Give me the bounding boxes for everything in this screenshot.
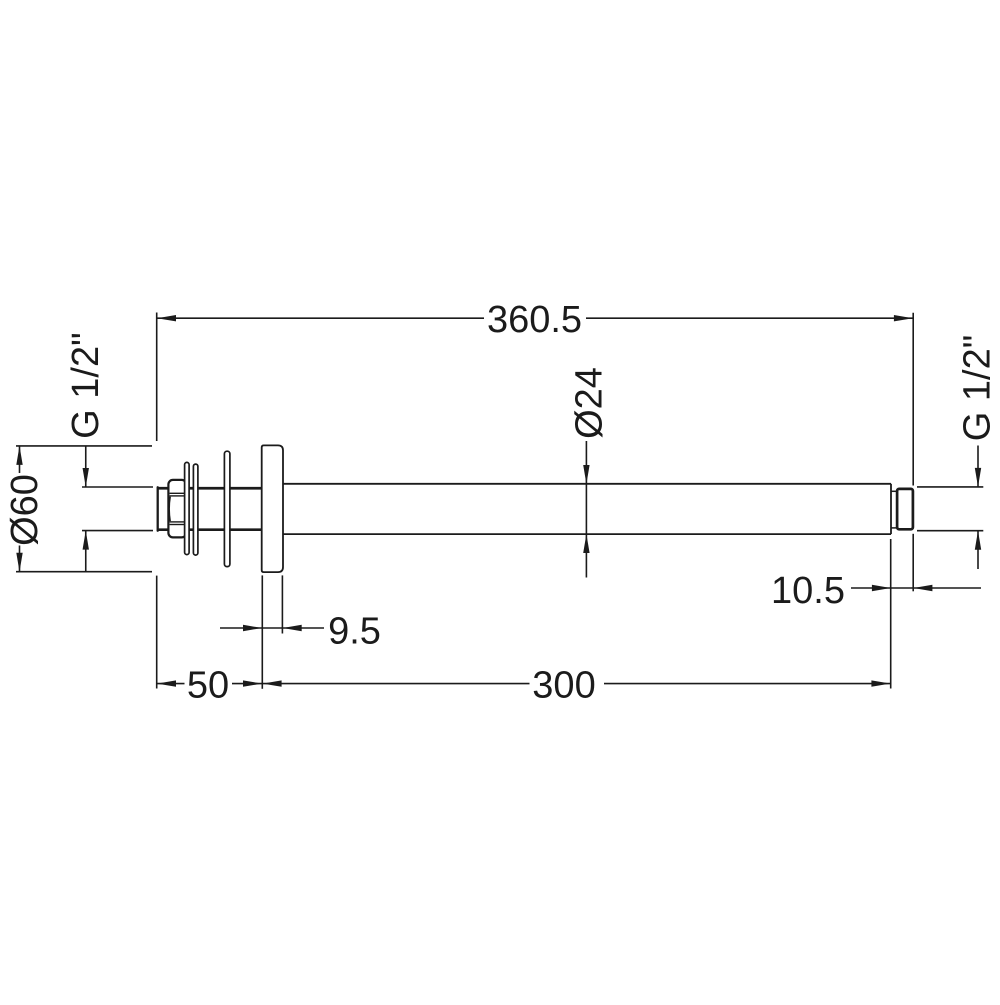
dim 9.5 <box>220 627 324 629</box>
dim G 1/2 left <box>85 446 87 572</box>
washer 2 <box>193 464 198 555</box>
svg-text:G 1/2": G 1/2" <box>957 335 999 441</box>
svg-text:Ø60: Ø60 <box>4 474 46 546</box>
ceiling bottom edge / dia60 lower extension <box>16 571 152 573</box>
svg-text:G 1/2": G 1/2" <box>65 332 107 438</box>
nut chamfer lines <box>170 493 186 524</box>
threaded stub left end <box>157 487 159 530</box>
ceiling break line lower <box>156 576 158 689</box>
dim 50 and 300 <box>157 683 890 685</box>
dim G 1/2 right <box>977 446 979 570</box>
dim 360.5 <box>157 317 913 319</box>
shower arm pipe <box>283 484 891 534</box>
washer 1 <box>185 462 190 554</box>
svg-text:50: 50 <box>187 664 229 706</box>
svg-text:360.5: 360.5 <box>487 299 582 341</box>
neck between pipe and end thread <box>891 491 897 528</box>
dim 10.5 <box>851 587 981 589</box>
svg-text:300: 300 <box>532 664 595 706</box>
svg-text:10.5: 10.5 <box>771 570 845 612</box>
nut face arc <box>169 497 170 522</box>
seal plate <box>224 451 230 566</box>
ceiling break line upper <box>156 313 158 442</box>
thread pipe bottom edge <box>157 528 262 531</box>
hex nut <box>168 480 186 538</box>
svg-text:9.5: 9.5 <box>328 610 381 652</box>
ceiling top edge / dia60 upper extension <box>16 445 152 447</box>
thread pipe top edge <box>157 487 262 490</box>
svg-text:Ø24: Ø24 <box>569 367 611 439</box>
extension lines right <box>262 313 983 689</box>
end thread cap <box>897 489 913 529</box>
cover flange <box>262 445 283 572</box>
dim dia60 <box>19 446 21 572</box>
dim dia24 <box>585 441 587 578</box>
thread top extension line <box>82 486 153 488</box>
thread bottom extension line <box>82 530 153 532</box>
